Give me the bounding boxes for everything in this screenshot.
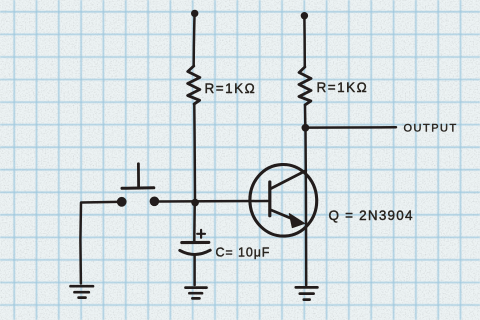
switch S1 contact left (dot)	[117, 197, 127, 207]
svg-text:R=1KΩ: R=1KΩ	[205, 81, 257, 96]
capacitor C1 top plate	[182, 241, 209, 244]
wire capacitor top lead	[193, 205, 196, 241]
svg-text:Q = 2N3904: Q = 2N3904	[329, 208, 414, 223]
resistor R2 zigzag	[299, 67, 311, 105]
switch S1 actuator stem	[137, 164, 140, 188]
transistor Q1 base bar	[268, 182, 271, 216]
node Vcc left (dot)	[191, 10, 198, 17]
switch S1 pushbutton bar	[122, 186, 154, 190]
wire R1 bottom to base node	[193, 104, 196, 200]
wire R2 bottom to output node	[304, 105, 307, 125]
node base junction (dot)	[191, 199, 199, 207]
ground symbol below Q1 emitter	[296, 287, 318, 299]
wire switch to base of Q1	[159, 200, 268, 203]
svg-text:OUTPUT: OUTPUT	[404, 123, 458, 135]
ground symbol below C1	[186, 288, 207, 299]
transistor Q1 circle	[248, 163, 318, 238]
capacitor C1 bottom plate (curved)	[180, 250, 210, 254]
resistor R1 zigzag	[188, 66, 200, 104]
ground symbol left	[71, 286, 94, 297]
svg-text:R=1KΩ: R=1KΩ	[317, 80, 369, 95]
svg-text:C= 10μF: C= 10μF	[216, 246, 271, 260]
node output junction (dot)	[302, 124, 310, 132]
wire Vcc-right to R2 top	[303, 18, 306, 67]
wire capacitor bottom lead	[193, 256, 196, 285]
ink layer	[71, 10, 458, 300]
node Vcc right (dot)	[301, 12, 308, 19]
switch S1 contact right (dot)	[150, 197, 160, 207]
transistor Q1 emitter stroke	[271, 210, 294, 220]
plus sign polarity mark	[197, 230, 205, 238]
wire switch left lead with corner	[80, 202, 117, 284]
transistor Q1 emitter arrowhead	[289, 214, 304, 228]
transistor Q1 collector stroke	[271, 171, 306, 189]
wire Vcc-left to R1 top	[192, 16, 195, 66]
wire collector-emitter vertical through Q1	[304, 130, 307, 285]
wire output horizontal	[309, 126, 396, 129]
